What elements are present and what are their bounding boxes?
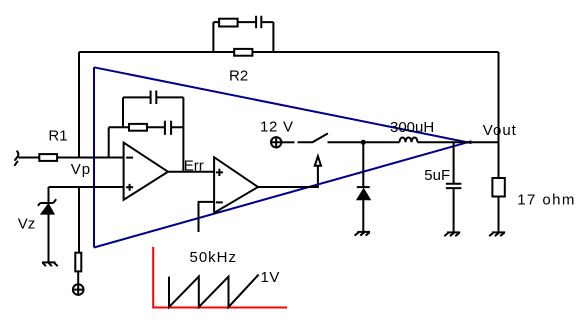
resistor R2 (in main top wire) — [234, 49, 252, 56]
comparator U2 — [214, 157, 258, 213]
op-amp U1 (error amplifier) — [124, 143, 168, 200]
input terminal squiggle — [14, 151, 18, 166]
arrow head (switch control) — [315, 156, 321, 166]
error-amp feedback: lower branch left vertical — [108, 127, 110, 157]
svg-text:R1: R1 — [48, 128, 67, 145]
R2 parallel branch left vertical wire — [212, 22, 214, 52]
svg-text:Vz: Vz — [18, 216, 36, 233]
wire: resistor to current source — [77, 271, 79, 284]
wire: sawtooth input step to comparator minus — [199, 202, 215, 232]
svg-text:12 V: 12 V — [260, 118, 294, 135]
wire: comparator output run — [258, 166, 318, 187]
wire: output capacitor branch — [453, 142, 455, 183]
wire: feedback right vertical to error-amp output — [182, 97, 184, 171]
capacitor (top branch series C) — [256, 16, 261, 29]
resistor (bias, vertical) — [75, 253, 81, 272]
wire: zener branch down from Vp — [48, 187, 50, 203]
wire: left vertical from top run down to error-amp minus wire — [78, 52, 80, 158]
switch SW (blade open) — [298, 133, 328, 142]
svg-text:Vout: Vout — [483, 122, 517, 139]
resistor (feedback series R) — [129, 124, 147, 131]
R2 parallel branch right vertical wire — [272, 22, 274, 52]
wire: input to error-amp minus input — [19, 157, 124, 159]
wire: source to switch contact — [281, 141, 294, 143]
svg-text:300uH: 300uH — [390, 119, 434, 136]
ground (zener) — [42, 262, 58, 266]
capacitor (upper feedback C) — [151, 91, 157, 105]
svg-text:Err: Err — [184, 157, 204, 174]
ground (diode) — [355, 232, 371, 236]
wire: bias branch down from Vp wire — [78, 187, 80, 253]
node junction (diode tap) — [361, 140, 366, 145]
svg-text:1V: 1V — [261, 269, 280, 286]
wire: Vp node to error-amp plus input — [49, 186, 124, 188]
svg-text:50kHz: 50kHz — [190, 249, 238, 266]
wire: load to ground — [498, 197, 500, 233]
wire: error-amp output to comparator plus input — [168, 171, 214, 173]
diode D1 (freewheel) — [357, 187, 371, 200]
wire: diode to ground — [362, 200, 364, 232]
ground (capacitor) — [444, 232, 460, 236]
voltage source 12V (circle plus) — [271, 137, 281, 147]
capacitor C1 5uF — [446, 184, 462, 188]
zener diode Vz — [38, 199, 56, 214]
big system op-amp outline (blue triangle) — [94, 67, 472, 247]
capacitor (feedback series C) — [165, 121, 171, 135]
sawtooth axes (red) — [152, 247, 287, 308]
svg-text:5uF: 5uF — [424, 167, 450, 184]
ground (load) — [489, 232, 505, 236]
wire: R2 top branch — [213, 21, 273, 23]
wire: capacitor to ground — [453, 188, 455, 232]
resistor (top branch series R) — [219, 19, 238, 27]
wire: diode branch down from junction — [362, 142, 364, 187]
resistor R1 — [39, 154, 57, 161]
wire: top feedback run from node A to Vout vertical — [79, 51, 499, 53]
sawtooth waveform — [169, 275, 259, 308]
svg-text:17 ohm: 17 ohm — [517, 192, 575, 209]
resistor RL (load) — [492, 178, 504, 197]
wire: inductor to Vout — [418, 141, 499, 143]
svg-text:R2: R2 — [229, 68, 248, 85]
inductor L1 300uH — [400, 138, 418, 143]
current source symbol (circle plus) — [73, 284, 84, 295]
wire: right vertical Vout down to load — [498, 52, 500, 178]
wire: lower feedback branch — [109, 126, 184, 128]
svg-text:Vp: Vp — [71, 161, 91, 178]
wire: zener to ground — [48, 214, 50, 262]
wire: switch to inductor — [328, 141, 400, 143]
error-amp feedback: upper branch left vertical — [122, 97, 124, 127]
wire: upper feedback branch — [123, 96, 183, 98]
